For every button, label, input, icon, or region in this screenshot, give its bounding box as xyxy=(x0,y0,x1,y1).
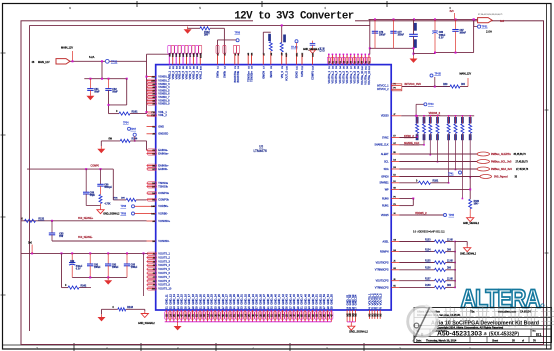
svg-text:GND_45: GND_45 xyxy=(292,294,296,305)
svg-text:B1: B1 xyxy=(536,332,542,337)
svg-text:SYNC: SYNC xyxy=(382,136,389,139)
svg-text:J10: J10 xyxy=(152,289,155,291)
svg-text:COMP1: COMP1 xyxy=(312,70,315,80)
ground at C81 xyxy=(89,90,91,93)
svg-text:GND_23: GND_23 xyxy=(210,294,214,305)
svg-text:DNI: DNI xyxy=(461,84,465,86)
svg-text:GND_18: GND_18 xyxy=(191,294,195,305)
svg-text:VOUT_S: VOUT_S xyxy=(285,71,288,81)
svg-text:J6: J6 xyxy=(153,273,155,275)
pin VORB0+ with TP38 xyxy=(147,205,156,207)
pin VDD25 with TP35 xyxy=(391,214,399,216)
svg-text:P6: P6 xyxy=(393,197,395,199)
svg-text:DNI: DNI xyxy=(121,198,125,200)
wire COMP0 net xyxy=(27,168,113,170)
resistor bank pull-ups on VDD33 xyxy=(416,115,418,117)
svg-text:VDD25_2: VDD25_2 xyxy=(415,211,427,215)
svg-text:22.6K: 22.6K xyxy=(447,239,453,241)
svg-text:J6: J6 xyxy=(393,279,395,281)
svg-text:GND_SIGNAL2: GND_SIGNAL2 xyxy=(460,253,477,256)
border zone ticks left xyxy=(1,52,6,54)
svg-text:GND_27: GND_27 xyxy=(225,294,229,305)
svg-text:GMON: GMON xyxy=(262,71,265,79)
pin VOSNS0+ xyxy=(147,220,156,222)
pin array VSNS0_2..9 xyxy=(147,80,156,82)
svg-text:22.6K: 22.6K xyxy=(447,260,453,262)
pin PGOOD row with port 3V3_Pgood xyxy=(391,176,399,178)
svg-text:5.0 ADDRESS=0x4F 0011 111: 5.0 ADDRESS=0x4F 0011 111 xyxy=(413,231,445,234)
svg-text:R134: R134 xyxy=(425,249,431,251)
svg-text:B7: B7 xyxy=(152,169,154,171)
pin SCL row with port PMBus_SCL_3v3 xyxy=(391,161,399,163)
test point TP33 xyxy=(295,40,298,43)
svg-text:A3: A3 xyxy=(152,103,154,106)
svg-text:VSNS0_9: VSNS0_9 xyxy=(158,102,170,106)
test point TP36 xyxy=(236,39,239,42)
svg-text:EAIN0b-: EAIN0b- xyxy=(158,167,168,171)
svg-text:GND_48: GND_48 xyxy=(303,294,307,305)
svg-text:E7: E7 xyxy=(393,136,395,138)
pin labels top-left above xyxy=(168,45,171,53)
svg-text:TP38: TP38 xyxy=(121,206,127,208)
svg-text:INTVCC_1: INTVCC_1 xyxy=(377,84,389,87)
svg-text:GND_49: GND_49 xyxy=(307,294,311,305)
svg-text:VOUTS_9: VOUTS_9 xyxy=(158,283,170,287)
wire 3v0 sense branch xyxy=(61,253,63,287)
svg-text:J5: J5 xyxy=(153,269,155,271)
resistor R143 0ohm bottom xyxy=(102,308,118,310)
svg-text:VDD25: VDD25 xyxy=(381,214,389,217)
border zone ticks top xyxy=(136,1,138,7)
capacitor C84 DNI xyxy=(312,41,314,44)
svg-text:VOUT0a_11: VOUT0a_11 xyxy=(364,70,367,84)
pin pair EAIN0b xyxy=(147,165,156,167)
pin COMP0b xyxy=(147,199,156,201)
svg-text:P9: P9 xyxy=(393,88,395,90)
resistor R137 config row VOUT1CFG xyxy=(391,280,399,282)
svg-text:SGND: SGND xyxy=(296,71,299,78)
svg-text:H7: H7 xyxy=(393,143,395,145)
svg-text:TP31: TP31 xyxy=(482,26,489,29)
svg-text:G4: G4 xyxy=(393,240,396,242)
svg-text:37,36,44,53,54,55,65,66,71: 37,36,44,53,54,55,65,66,71 xyxy=(478,14,503,16)
svg-text:J4: J4 xyxy=(153,265,155,267)
svg-text:GND_39: GND_39 xyxy=(270,294,274,305)
svg-text:RUN1: RUN1 xyxy=(382,205,389,208)
svg-text:C89: C89 xyxy=(70,261,75,263)
svg-text:A5: A5 xyxy=(152,96,154,99)
svg-text:VOUTS_10: VOUTS_10 xyxy=(158,287,172,291)
pin VINL_2 F12 xyxy=(147,114,156,116)
svg-text:6.2A: 6.2A xyxy=(89,55,95,59)
svg-text:12V to 3V3 Converter: 12V to 3V3 Converter xyxy=(234,11,354,23)
svg-text:GND_12: GND_12 xyxy=(168,294,172,305)
pin array bottom GND pins xyxy=(165,310,167,322)
ground under R144 row xyxy=(100,141,102,146)
svg-text:PMBus_ALERTn: PMBus_ALERTn xyxy=(491,153,511,156)
svg-text:DNI: DNI xyxy=(204,34,208,36)
capacitor C92 100uF xyxy=(107,253,109,263)
svg-text:VOUT0CFG: VOUT0CFG xyxy=(376,261,389,264)
pin RUN1 row xyxy=(391,205,399,207)
svg-text:VDD33_2: VDD33_2 xyxy=(429,111,441,115)
wire gnd to R162 xyxy=(188,27,200,29)
svg-text:100uF: 100uF xyxy=(94,267,101,269)
wire right cap group xyxy=(414,53,436,55)
svg-text:3V3_Pgood: 3V3_Pgood xyxy=(494,176,508,179)
wire left border drop xyxy=(20,224,22,254)
svg-text:VOUT0a_7: VOUT0a_7 xyxy=(350,70,353,83)
wire group1 magenta bus xyxy=(347,321,355,323)
wire COMP0 down to R96 xyxy=(112,169,114,200)
svg-text:GND_16: GND_16 xyxy=(183,294,187,305)
capacitor C90 3300pF xyxy=(100,169,102,184)
capacitor C82 33uF xyxy=(108,79,110,89)
svg-text:MAIN_12V: MAIN_12V xyxy=(460,73,472,76)
svg-text:GND_36: GND_36 xyxy=(258,294,262,305)
svg-text:DNI: DNI xyxy=(59,236,63,238)
pin VDD33 xyxy=(391,115,401,117)
pin SYNC xyxy=(391,137,399,139)
resistor R180 10K xyxy=(469,177,471,199)
svg-text:P9: P9 xyxy=(393,204,395,206)
capacitor C78 polarized vertical xyxy=(413,19,415,34)
op-amp U8 LTM4676 body outline xyxy=(156,65,392,310)
resistor R163 from 12V rail xyxy=(281,25,283,42)
resistor R136 config row VTRIM0CFG xyxy=(391,269,399,271)
test point TP31 xyxy=(473,19,475,26)
pin array VOUTS_1..10 xyxy=(147,253,156,255)
svg-text:TP34: TP34 xyxy=(123,123,129,125)
svg-text:PMBus_SCL_3v3: PMBus_SCL_3v3 xyxy=(491,161,512,164)
pin GND/SD A6 xyxy=(147,133,156,135)
svg-text:100uF: 100uF xyxy=(131,267,138,269)
svg-text:A4: A4 xyxy=(152,99,154,102)
svg-text:K5: K5 xyxy=(393,286,395,288)
svg-text:R143: R143 xyxy=(127,306,133,309)
svg-text:R161: R161 xyxy=(132,111,139,114)
svg-text:4.75K: 4.75K xyxy=(105,204,111,206)
svg-text:GND_13: GND_13 xyxy=(172,294,176,305)
svg-text:27,45,58,73: 27,45,58,73 xyxy=(516,162,529,164)
svg-text:VSNS0_1: VSNS0_1 xyxy=(158,75,170,79)
watermark circle logo xyxy=(408,306,438,342)
schematic inner frame inner maroon left xyxy=(29,25,31,331)
svg-text:VOUTS_3: VOUTS_3 xyxy=(158,259,170,263)
svg-text:SW0a: SW0a xyxy=(217,70,220,77)
svg-text:GND_19: GND_19 xyxy=(195,294,199,305)
test point TP34 xyxy=(128,127,131,130)
svg-text:VOUT0a_6: VOUT0a_6 xyxy=(346,70,349,83)
svg-text:GND_46: GND_46 xyxy=(296,294,300,305)
svg-text:GND_SIGNAL2: GND_SIGNAL2 xyxy=(349,329,368,333)
resistor R135 config row VOUT0CFG xyxy=(391,262,399,264)
svg-text:GND_31: GND_31 xyxy=(240,294,244,305)
svg-text:A6: A6 xyxy=(152,133,154,136)
pin SHARE_CLK xyxy=(391,144,399,146)
capacitor C91 100uF xyxy=(89,253,91,263)
svg-text:VOUT0a_3: VOUT0a_3 xyxy=(335,70,338,83)
svg-text:VOSNS0+: VOSNS0+ xyxy=(158,219,170,223)
svg-text:A8: A8 xyxy=(152,86,154,89)
svg-text:INTVCC_2: INTVCC_2 xyxy=(377,88,389,91)
wire to MAIN_12V stub xyxy=(460,86,468,88)
wire cap bank bottom bus xyxy=(72,276,127,278)
svg-text:DNI: DNI xyxy=(324,47,326,51)
border frame inner bottom line xyxy=(3,344,552,346)
pin RUN0 row xyxy=(391,198,399,200)
capacitor C86 100uF 6.3V xyxy=(432,32,438,35)
svg-text:VOUT0a_10: VOUT0a_10 xyxy=(361,70,364,85)
svg-text:J1: J1 xyxy=(153,254,155,256)
resistor R133 config row ASEL xyxy=(391,241,399,243)
svg-text:D5: D5 xyxy=(152,200,154,202)
svg-text:Thursday, March 20, 2014: Thursday, March 20, 2014 xyxy=(426,339,457,342)
svg-text:A4: A4 xyxy=(152,220,154,223)
svg-text:D4: D4 xyxy=(393,160,395,162)
svg-text:GND_34: GND_34 xyxy=(251,294,255,305)
svg-text:GND_52: GND_52 xyxy=(318,294,322,305)
wire INTVCC net xyxy=(402,86,450,88)
svg-text:VOUT0a_8: VOUT0a_8 xyxy=(353,70,356,83)
svg-text:IMON: IMON xyxy=(270,71,273,78)
svg-text:GND_37: GND_37 xyxy=(262,294,266,305)
svg-text:VOUT0a_4: VOUT0a_4 xyxy=(339,70,342,83)
svg-text:TP35: TP35 xyxy=(449,215,455,217)
ground at cap bank bottom xyxy=(107,277,109,280)
svg-text:GND_29: GND_29 xyxy=(232,294,236,305)
svg-text:TP37: TP37 xyxy=(131,129,137,131)
svg-text:3V0_SENSE-: 3V0_SENSE- xyxy=(78,236,93,239)
test point TP40 xyxy=(415,104,417,116)
svg-text:U8: U8 xyxy=(259,144,263,148)
ground GND_SIGNAL2 at C84 xyxy=(312,45,314,50)
svg-text:56pF: 56pF xyxy=(90,195,96,197)
svg-text:A10: A10 xyxy=(151,80,154,83)
pin singles top SW/BOOST xyxy=(217,54,219,65)
node MAIN_12V label stub xyxy=(72,51,74,61)
svg-text:COMP0: COMP0 xyxy=(91,165,100,168)
wire TP36 to pin xyxy=(218,39,237,41)
wire 3V0_SENSE+ row xyxy=(21,220,147,222)
resistor R138 config row VTRIM1CFG xyxy=(391,286,399,288)
svg-text:VOUT0a_1: VOUT0a_1 xyxy=(328,70,331,83)
svg-text:TSNS0b+: TSNS0b+ xyxy=(251,70,254,81)
svg-text:TP36: TP36 xyxy=(235,33,241,35)
svg-text:VOUT0a_2: VOUT0a_2 xyxy=(332,70,335,83)
svg-text:A6: A6 xyxy=(152,93,154,96)
capacitor C77 100uF xyxy=(393,19,395,31)
node 3v3 label xyxy=(454,13,456,19)
svg-text:GND_SIGNAL2: GND_SIGNAL2 xyxy=(103,213,120,216)
svg-text:R144: R144 xyxy=(132,138,138,141)
pin group bottom VOUT0 xyxy=(368,310,370,319)
svg-text:35,45,58,73: 35,45,58,73 xyxy=(514,154,527,156)
ground GND_SIGNAL2 under R180 xyxy=(469,209,471,216)
sheet title text xyxy=(253,19,355,22)
svg-text:Sheet: Sheet xyxy=(492,339,498,342)
svg-text:GND_26: GND_26 xyxy=(221,294,225,305)
wire to VSNS pin xyxy=(147,76,148,78)
svg-text:Date:: Date: xyxy=(416,339,422,342)
schematic inner frame inner maroon top xyxy=(30,24,370,26)
svg-text:3V0_SENSE+: 3V0_SENSE+ xyxy=(78,217,94,220)
svg-text:MAIN_12V: MAIN_12V xyxy=(38,61,50,64)
wire C82 to R161 xyxy=(108,90,110,105)
svg-text:A7: A7 xyxy=(152,89,154,92)
svg-text:R133: R133 xyxy=(425,239,431,241)
svg-text:LTM4676: LTM4676 xyxy=(254,149,267,153)
svg-text:VOUTS_2: VOUTS_2 xyxy=(158,255,170,259)
svg-text:DNI: DNI xyxy=(447,268,451,270)
svg-text:INTVCC_3V3: INTVCC_3V3 xyxy=(405,82,422,86)
resistor R96 DNI to COMP0b xyxy=(113,199,126,201)
svg-text:H4: H4 xyxy=(393,250,395,252)
svg-text:VOUT0a_5: VOUT0a_5 xyxy=(343,70,346,83)
svg-text:C84: C84 xyxy=(321,47,323,52)
ground GND_SIGNAL2 under R95 xyxy=(100,204,102,208)
resistor R134 config row RSMPH xyxy=(391,251,399,253)
ground at cap bank xyxy=(413,56,415,59)
wire 3V0_SENSE- row xyxy=(52,240,147,242)
svg-text:A9: A9 xyxy=(152,83,154,86)
svg-text:GND_SIGNAL2: GND_SIGNAL2 xyxy=(138,322,155,325)
svg-text:D6: D6 xyxy=(393,167,395,169)
svg-text:TP-05: TP-05 xyxy=(435,73,442,75)
svg-text:COMP0a: COMP0a xyxy=(158,191,169,195)
svg-text:3300pF: 3300pF xyxy=(104,187,112,189)
pin VINL_1 F11 xyxy=(147,111,156,113)
svg-text:COMP0b: COMP0b xyxy=(158,198,169,202)
svg-text:GND_54: GND_54 xyxy=(326,294,330,305)
svg-text:MAIN_12V: MAIN_12V xyxy=(61,47,73,50)
resistor R164 vertical at pin xyxy=(262,32,264,54)
pin SPARE1 row with resistor R181 xyxy=(391,182,399,184)
svg-text:VORB0+: VORB0+ xyxy=(158,204,169,208)
svg-text:RSMPH: RSMPH xyxy=(380,251,389,254)
svg-text:GND_32: GND_32 xyxy=(243,294,247,305)
svg-text:D7: D7 xyxy=(152,186,154,188)
svg-text:GND/SD: GND/SD xyxy=(158,132,168,136)
svg-text:BOOST0b: BOOST0b xyxy=(237,70,240,82)
svg-text:100uF: 100uF xyxy=(460,33,467,35)
pin array top-left VIN pins xyxy=(168,54,170,65)
svg-text:3v3: 3v3 xyxy=(500,20,505,23)
svg-text:GND_41: GND_41 xyxy=(277,294,281,305)
svg-text:J4: J4 xyxy=(393,213,395,215)
svg-text:VINL_2: VINL_2 xyxy=(158,113,167,117)
svg-text:TP-33: TP-33 xyxy=(291,46,298,49)
svg-text:GND_38: GND_38 xyxy=(266,294,270,305)
wire R161 to VINL pin xyxy=(130,113,147,115)
svg-text:A11: A11 xyxy=(152,76,155,79)
svg-text:SHARE_CLK: SHARE_CLK xyxy=(374,144,389,147)
svg-text:GND_15: GND_15 xyxy=(180,294,184,305)
svg-text:GND_47: GND_47 xyxy=(300,294,304,305)
svg-text:E4: E4 xyxy=(393,175,395,177)
svg-text:E1: E1 xyxy=(152,126,154,128)
svg-text:GND_40: GND_40 xyxy=(273,294,277,305)
wire 12V to caps xyxy=(101,61,103,78)
ground GND_SIGNAL2 right of R143 xyxy=(144,309,146,311)
svg-text:ASEL: ASEL xyxy=(382,240,389,243)
wire left cap group xyxy=(369,19,371,54)
pin GND Em1 xyxy=(147,126,156,128)
capacitor C93 100uF xyxy=(126,253,128,263)
ground GND_SIGNAL2 config bus xyxy=(466,242,468,246)
svg-text:ALERT: ALERT xyxy=(381,153,389,156)
svg-text:SW0b: SW0b xyxy=(224,70,227,77)
svg-text:33uF: 33uF xyxy=(112,91,118,94)
svg-text:J2: J2 xyxy=(153,257,155,259)
svg-text:VOUT0_5: VOUT0_5 xyxy=(378,293,382,305)
svg-text:VTRIM1CFG: VTRIM1CFG xyxy=(375,286,389,289)
test point TP32 xyxy=(105,59,109,63)
svg-text:100uF: 100uF xyxy=(379,34,386,36)
svg-text:GND_42: GND_42 xyxy=(281,294,285,305)
pin COMP0a xyxy=(147,192,156,194)
svg-text:EAIN0a+: EAIN0a+ xyxy=(158,152,169,156)
capacitor C76 100uF xyxy=(374,19,376,31)
svg-text:VOUTS_7: VOUTS_7 xyxy=(158,275,170,279)
svg-text:GND_S4: GND_S4 xyxy=(354,294,358,305)
svg-text:GND_SIGNAL2: GND_SIGNAL2 xyxy=(463,222,480,225)
wire MAIN_12V rail xyxy=(70,60,147,62)
svg-text:GND_53: GND_53 xyxy=(322,294,326,305)
svg-text:D41: D41 xyxy=(151,213,154,215)
svg-text:R142: R142 xyxy=(81,284,87,287)
pin WP row xyxy=(391,188,399,190)
svg-text:J7: J7 xyxy=(393,114,395,116)
wire bottom magenta bus xyxy=(165,321,332,323)
svg-text:SPARE1: SPARE1 xyxy=(379,182,389,185)
svg-text:D40: D40 xyxy=(151,206,154,208)
svg-text:C6: C6 xyxy=(152,154,154,156)
svg-text:27,45,58,73: 27,45,58,73 xyxy=(516,169,529,171)
svg-text:VIN_S: VIN_S xyxy=(281,71,284,79)
test point TP41 on SDA xyxy=(459,171,462,174)
svg-text:VOUTS_5: VOUTS_5 xyxy=(158,267,170,271)
svg-text:GND_50: GND_50 xyxy=(311,294,315,305)
svg-text:K8: K8 xyxy=(393,188,395,190)
svg-text:6.3V: 6.3V xyxy=(76,269,81,271)
wire config resistor bus xyxy=(454,242,456,288)
svg-text:6.3V: 6.3V xyxy=(439,37,444,39)
ground at bottom array xyxy=(177,322,179,323)
svg-text:TP41: TP41 xyxy=(448,174,454,176)
svg-text:R136: R136 xyxy=(425,268,431,270)
pin SDA row with port PMBus_SDA_3v3 xyxy=(391,168,399,170)
title block date row xyxy=(469,337,471,343)
svg-text:R181: R181 xyxy=(433,180,439,183)
capacitor C88 56pF xyxy=(85,169,87,192)
ground top middle xyxy=(187,27,189,30)
capacitor C83 DNI xyxy=(51,221,53,233)
svg-text:RUN0: RUN0 xyxy=(382,197,389,200)
svg-text:TP39: TP39 xyxy=(121,213,127,215)
wire 3v0 bus row xyxy=(21,252,148,254)
svg-text:VOUTS_4: VOUTS_4 xyxy=(158,263,170,267)
svg-text:3v3: 3v3 xyxy=(450,10,455,13)
capacitor C81 33uF xyxy=(89,79,91,89)
resistor R95 4.75K vertical xyxy=(100,186,102,194)
pin ALERT row with port PMBus_ALERTn xyxy=(391,153,399,155)
pin number boxes bottom xyxy=(165,312,168,320)
svg-text:F12: F12 xyxy=(152,115,155,117)
pin pair TSNS0 xyxy=(147,182,156,184)
port 3v3 output xyxy=(478,18,493,23)
svg-text:VIN1_2: VIN1_2 xyxy=(199,70,202,79)
